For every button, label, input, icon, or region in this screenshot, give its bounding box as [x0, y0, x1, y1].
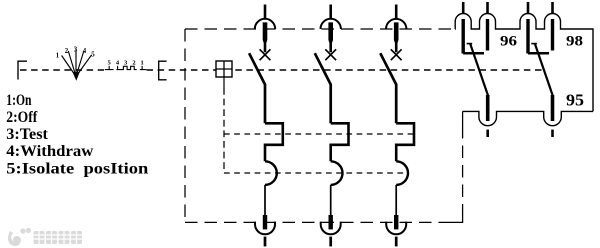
svg-text:2: 2 [65, 48, 69, 55]
svg-text:1: 1 [56, 53, 60, 60]
svg-text:2:Off: 2:Off [6, 109, 38, 126]
svg-text:1:On: 1:On [6, 92, 31, 109]
svg-text:4: 4 [83, 48, 87, 55]
svg-text:1: 1 [141, 60, 144, 67]
svg-text:5: 5 [91, 52, 95, 59]
svg-text:4:Withdraw: 4:Withdraw [6, 143, 94, 160]
svg-text:95: 95 [566, 90, 584, 109]
svg-text:98: 98 [566, 34, 583, 50]
svg-text:96: 96 [500, 34, 517, 50]
svg-text:3:Test: 3:Test [6, 126, 48, 143]
svg-text:5:Isolate posItion: 5:Isolate posItion [6, 160, 148, 177]
svg-text:3: 3 [74, 47, 78, 54]
